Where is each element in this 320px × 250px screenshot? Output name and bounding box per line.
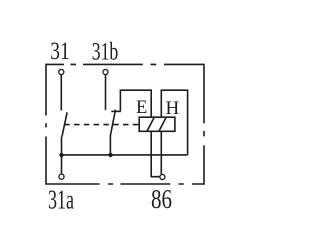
switch S2 fixed contact foot <box>111 110 120 112</box>
dashed mechanical coupling line <box>64 124 139 126</box>
switch S1 blade (contact 31) <box>62 112 67 136</box>
wire from terminal 31 down <box>60 75 62 111</box>
svg-text:86: 86 <box>151 183 172 214</box>
relay outline top border (chain line) <box>46 63 204 65</box>
svg-text:31a: 31a <box>48 184 74 214</box>
bottom wire junction A to H winding right leg <box>62 154 188 156</box>
H winding box <box>161 90 187 174</box>
terminal 31b <box>103 69 108 74</box>
wire blade S2 to junction B <box>109 136 111 155</box>
wire from terminal 31b down <box>105 75 107 110</box>
terminal 86 <box>160 174 165 179</box>
relay outline left border (chain line) <box>45 64 47 185</box>
relay outline right border (chain line) <box>203 64 205 185</box>
svg-text:H: H <box>166 98 180 119</box>
switch S2 blade (contact 31b) <box>110 110 115 136</box>
svg-text:E: E <box>136 98 147 118</box>
svg-text:31: 31 <box>50 36 70 65</box>
relay outline bottom border (chain line) <box>46 183 204 185</box>
wire junction A down to terminal 31a <box>61 155 63 174</box>
svg-text:31b: 31b <box>92 36 119 65</box>
terminal 31 <box>59 69 64 74</box>
terminal 31a <box>59 174 64 179</box>
junction A dot <box>59 153 63 157</box>
E winding box <box>120 90 159 177</box>
junction B dot <box>108 153 112 157</box>
wire blade S1 to junction A <box>61 137 63 156</box>
coil core (hatched rectangle) <box>139 117 175 131</box>
